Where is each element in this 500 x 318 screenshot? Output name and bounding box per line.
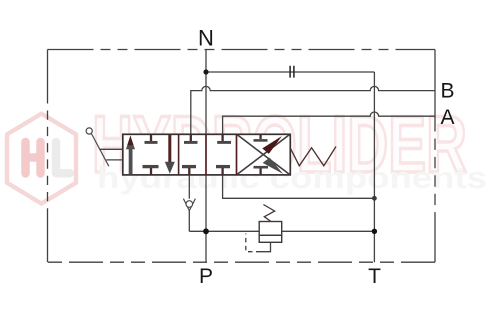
svg-text:B: B: [440, 79, 454, 102]
position 2 top blocked port: [190, 134, 192, 141]
position 1 top blocked port: [150, 134, 152, 141]
position 1 up arrow shaft: [129, 148, 133, 175]
lever arm: [91, 133, 109, 166]
valve divider 3: [236, 134, 238, 175]
position 4 arrow head down-right: [263, 158, 284, 174]
enclosure dashed border: [48, 50, 436, 263]
valve divider 1: [178, 134, 180, 175]
wire to port A with hop: [223, 112, 435, 134]
wire tank return: [223, 175, 375, 198]
relief valve pilot drain dashed: [246, 234, 261, 252]
position 1 up arrow head tip: [127, 135, 133, 145]
svg-text:N: N: [198, 25, 214, 50]
node junction right upper: [372, 196, 377, 201]
check valve seat: [183, 199, 195, 211]
position 4 crossed flow diagonal a: [237, 135, 289, 175]
lever link top: [100, 148, 123, 150]
wire pilot line y72: [206, 71, 374, 73]
svg-text:T: T: [368, 265, 381, 288]
position 3 top blocked port: [221, 134, 223, 141]
position 4 top blocked port: [259, 134, 261, 139]
position 1 down arrow head: [165, 162, 175, 174]
watermark monogram H: [26, 142, 41, 174]
wire to port B with hops: [191, 86, 435, 134]
relief valve lower body: [259, 235, 282, 242]
position 4 crossed flow diagonal b: [237, 135, 289, 175]
node junction on P: [203, 228, 209, 234]
position 1 down arrow shaft: [168, 134, 171, 162]
lever link bottom: [106, 159, 123, 161]
spring return: [290, 147, 336, 166]
relief valve spring: [263, 205, 274, 222]
position 2 bottom blocked port: [182, 165, 196, 168]
position 4 arrow head up-right: [262, 136, 282, 154]
relief valve pilot drain solid: [261, 242, 271, 251]
watermark logo hexagon: [7, 114, 76, 204]
wire bottom bus: [189, 230, 374, 232]
plugged line ticks: [290, 66, 294, 78]
valve divider 2: [205, 134, 207, 175]
wire P vertical: [205, 175, 207, 262]
wire right vertical to T: [373, 72, 375, 262]
svg-text:A: A: [440, 106, 454, 129]
lever knob: [86, 128, 92, 134]
check valve ball: [186, 201, 193, 208]
node junction right lower: [372, 229, 377, 234]
wire below check valve: [188, 211, 190, 232]
watermark monogram L: [56, 142, 70, 173]
svg-text:P: P: [199, 265, 213, 288]
position 3 bottom blocked port: [216, 165, 230, 168]
node junction on N: [203, 69, 208, 74]
position 1 bottom blocked port: [143, 165, 159, 168]
position 4 bottom blocked port: [254, 166, 269, 169]
wire check valve branch: [188, 175, 190, 199]
valve U1 body: [123, 134, 290, 175]
relief valve body: [259, 222, 282, 236]
position 1 up arrow head base: [126, 145, 135, 150]
wire N vertical: [205, 50, 207, 135]
